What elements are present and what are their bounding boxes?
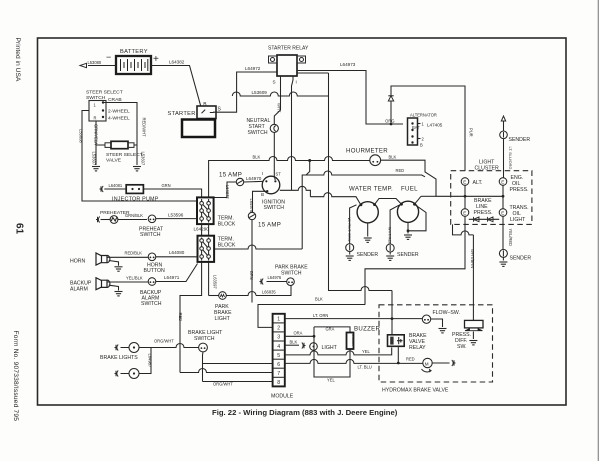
svg-text:E: E xyxy=(501,180,504,185)
svg-text:E: E xyxy=(501,211,504,216)
svg-text:BLOCK: BLOCK xyxy=(218,243,236,249)
svg-text:8: 8 xyxy=(277,380,280,386)
svg-text:RED/WHT: RED/WHT xyxy=(142,118,147,138)
svg-text:7: 7 xyxy=(277,371,280,377)
svg-text:61: 61 xyxy=(14,223,25,235)
svg-text:L53609: L53609 xyxy=(252,90,268,95)
svg-text:L64080: L64080 xyxy=(169,250,185,255)
svg-text:SWITCH: SWITCH xyxy=(248,130,268,136)
svg-text:1: 1 xyxy=(277,317,280,323)
svg-text:Fig. 22 - Wiring Diagram (883: Fig. 22 - Wiring Diagram (883 with J. De… xyxy=(212,408,398,417)
svg-text:STEER SELECT: STEER SELECT xyxy=(86,90,123,96)
svg-text:ST: ST xyxy=(276,172,282,177)
svg-text:ALTERNATOR: ALTERNATOR xyxy=(410,113,437,118)
svg-text:STEER SELECT: STEER SELECT xyxy=(106,152,143,158)
svg-text:BLK: BLK xyxy=(253,155,261,160)
svg-text:BUZZER: BUZZER xyxy=(354,326,380,333)
svg-text:SWITCH: SWITCH xyxy=(141,301,162,307)
svg-text:GRA: GRA xyxy=(326,327,335,332)
svg-text:BRAKE LIGHTS: BRAKE LIGHTS xyxy=(100,355,138,361)
svg-text:YEL: YEL xyxy=(362,349,370,354)
svg-text:SENDER: SENDER xyxy=(509,137,531,143)
svg-text:L64382: L64382 xyxy=(169,60,185,65)
svg-text:L53607: L53607 xyxy=(141,152,146,166)
svg-text:STARTER: STARTER xyxy=(168,111,196,117)
svg-text:6: 6 xyxy=(277,362,280,368)
svg-text:HOURMETER: HOURMETER xyxy=(346,148,388,155)
svg-text:LIGHT: LIGHT xyxy=(215,316,231,322)
svg-text:ORG/WHT: ORG/WHT xyxy=(213,382,233,387)
svg-text:LIGHT: LIGHT xyxy=(510,217,526,223)
svg-text:Printed in USA: Printed in USA xyxy=(14,38,21,82)
svg-text:BUZZER: BUZZER xyxy=(351,334,355,347)
svg-text:SENDER: SENDER xyxy=(397,252,419,258)
svg-text:LT. BLU: LT. BLU xyxy=(358,365,372,370)
svg-text:B: B xyxy=(261,192,264,197)
svg-text:I: I xyxy=(262,171,263,176)
svg-text:GRN/YELW: GRN/YELW xyxy=(94,124,99,146)
svg-text:BLOCK: BLOCK xyxy=(218,222,236,228)
svg-text:S: S xyxy=(273,80,276,85)
svg-text:YEL: YEL xyxy=(327,378,335,383)
svg-text:L64973: L64973 xyxy=(340,62,356,67)
svg-text:YEL/RED: YEL/RED xyxy=(508,229,513,247)
svg-text:RED: RED xyxy=(178,313,183,322)
svg-text:L53608: L53608 xyxy=(79,129,84,143)
svg-text:2: 2 xyxy=(277,326,280,332)
svg-text:PUR: PUR xyxy=(469,128,474,137)
svg-text:BAT: BAT xyxy=(412,125,420,130)
svg-text:ALT.: ALT. xyxy=(473,180,483,186)
svg-text:PRESS.: PRESS. xyxy=(474,210,493,216)
svg-text:Form No. 907338/Issued 795: Form No. 907338/Issued 795 xyxy=(12,331,19,422)
svg-text:BUTTON: BUTTON xyxy=(144,268,165,274)
svg-text:HYDROMAX BRAKE VALVE: HYDROMAX BRAKE VALVE xyxy=(382,388,449,394)
svg-text:GRN: GRN xyxy=(162,183,171,188)
svg-text:L53080: L53080 xyxy=(88,60,102,65)
svg-text:GRN/BLK: GRN/BLK xyxy=(125,213,143,218)
svg-text:L47405: L47405 xyxy=(427,123,443,128)
svg-text:SWITCH: SWITCH xyxy=(140,232,161,238)
svg-text:L64972: L64972 xyxy=(225,185,230,199)
svg-text:STARTER RELAY: STARTER RELAY xyxy=(268,46,309,52)
svg-text:FUEL: FUEL xyxy=(401,186,418,193)
svg-text:4: 4 xyxy=(277,344,280,350)
svg-text:HORN: HORN xyxy=(70,259,86,265)
svg-text:SENDER: SENDER xyxy=(510,256,532,262)
svg-text:INJECTOR PUMP: INJECTOR PUMP xyxy=(112,197,159,203)
svg-text:FLOW–SW.: FLOW–SW. xyxy=(433,310,460,316)
svg-text:3: 3 xyxy=(277,335,280,341)
svg-text:L64970: L64970 xyxy=(246,176,262,181)
svg-text:ORA: ORA xyxy=(294,331,303,336)
svg-text:I: I xyxy=(296,80,297,85)
svg-text:BLK: BLK xyxy=(290,340,298,345)
svg-text:SW.: SW. xyxy=(457,344,467,350)
svg-text:L53607: L53607 xyxy=(92,152,97,166)
svg-text:RED: RED xyxy=(406,357,415,362)
svg-text:L63597: L63597 xyxy=(213,275,218,289)
svg-text:RELAY: RELAY xyxy=(409,345,426,351)
svg-text:MODULE: MODULE xyxy=(271,394,294,400)
svg-text:M: M xyxy=(425,361,429,366)
svg-text:BATTERY: BATTERY xyxy=(120,49,148,55)
svg-text:BRN: BRN xyxy=(249,271,254,280)
svg-text:SWITCH: SWITCH xyxy=(264,205,285,211)
svg-text:SWITCH: SWITCH xyxy=(194,336,215,342)
svg-text:SENDER: SENDER xyxy=(357,252,379,258)
svg-text:LT. BLU/ORG: LT. BLU/ORG xyxy=(508,147,512,170)
svg-text:5: 5 xyxy=(277,353,280,359)
svg-text:2-WHEEL: 2-WHEEL xyxy=(108,109,130,115)
svg-text:BLK: BLK xyxy=(389,155,397,160)
svg-text:WATER TEMP.: WATER TEMP. xyxy=(349,186,393,193)
svg-text:−: − xyxy=(106,52,111,62)
svg-text:L64987: L64987 xyxy=(148,354,153,368)
svg-text:L66835: L66835 xyxy=(262,290,276,295)
svg-text:B: B xyxy=(420,143,423,148)
svg-text:L64976: L64976 xyxy=(268,275,282,280)
svg-text:VALVE: VALVE xyxy=(106,158,122,164)
svg-text:SWITCH: SWITCH xyxy=(281,271,302,277)
svg-text:L53596: L53596 xyxy=(168,213,184,218)
svg-text:ORG: ORG xyxy=(385,119,394,124)
svg-text:RED/BLK: RED/BLK xyxy=(125,251,143,256)
svg-text:WHT: WHT xyxy=(277,103,282,113)
svg-text:15 AMP: 15 AMP xyxy=(219,172,242,179)
svg-text:L64081: L64081 xyxy=(109,183,123,188)
svg-text:L64976: L64976 xyxy=(249,199,254,213)
svg-text:YEL/BLK: YEL/BLK xyxy=(126,276,143,281)
svg-text:ALARM: ALARM xyxy=(70,287,88,293)
svg-text:4-WHEEL: 4-WHEEL xyxy=(108,116,130,122)
svg-text:WHT/BRN: WHT/BRN xyxy=(470,249,475,268)
svg-text:ORG/WHT: ORG/WHT xyxy=(154,339,174,344)
svg-text:L64971: L64971 xyxy=(164,275,180,280)
svg-text:E: E xyxy=(463,211,466,216)
svg-text:WHT/LT. GRN: WHT/LT. GRN xyxy=(347,218,351,242)
svg-text:BLK: BLK xyxy=(315,297,323,302)
svg-text:+: + xyxy=(153,54,159,65)
svg-text:R: R xyxy=(94,116,97,121)
svg-text:LT. ORN: LT. ORN xyxy=(313,313,328,318)
svg-text:L64972: L64972 xyxy=(245,66,261,71)
svg-text:E: E xyxy=(463,180,466,185)
svg-text:RED: RED xyxy=(396,168,405,173)
svg-text:15 AMP: 15 AMP xyxy=(258,222,281,229)
svg-text:PRESS.: PRESS. xyxy=(510,187,529,193)
svg-text:LIGHT: LIGHT xyxy=(322,345,338,351)
svg-text:WHT/RED: WHT/RED xyxy=(388,227,392,245)
